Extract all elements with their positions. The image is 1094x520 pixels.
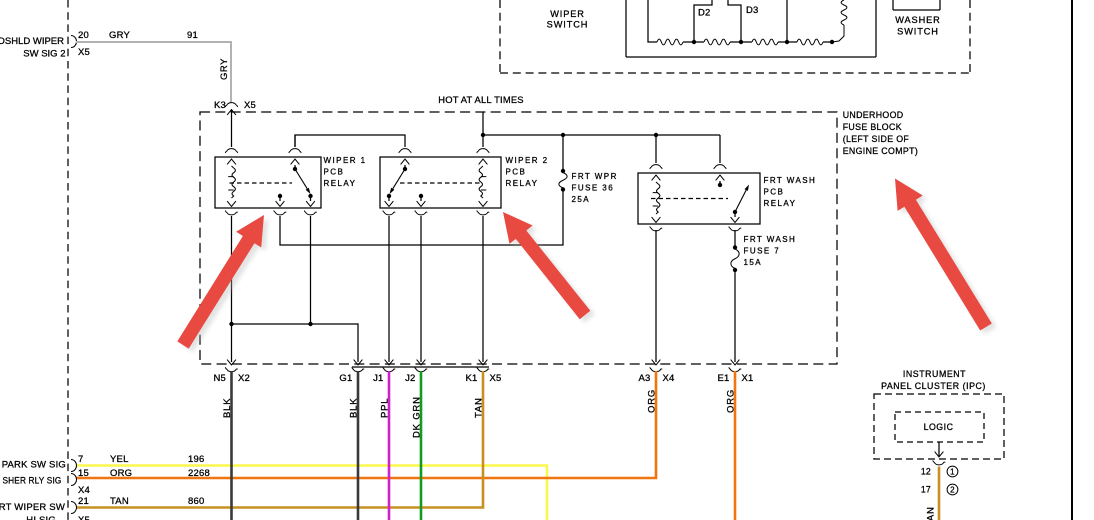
svg-text:7: 7: [78, 454, 83, 465]
op box wiper1 relay: [215, 157, 321, 208]
wash coil bottom arrow: [652, 217, 661, 222]
wiper switch inner box: [625, 0, 627, 57]
wiper2 coil: [479, 166, 486, 198]
LOGIC box (dashed): [895, 412, 984, 442]
svg-text:WIPER 2: WIPER 2: [506, 156, 549, 165]
terminal J1 arrow+cup: [385, 360, 394, 365]
wire wiper2 left to J1: [388, 216, 390, 362]
svg-text:17: 17: [921, 485, 931, 495]
svg-text:INSTRUMENT: INSTRUMENT: [903, 369, 966, 379]
node fuse36 tap: [561, 133, 565, 137]
svg-text:PARK SW SIG: PARK SW SIG: [2, 460, 66, 471]
svg-text:FRT WPR: FRT WPR: [572, 172, 618, 181]
connector washer rly sig pin 15: [71, 474, 77, 486]
wiper2 mid contact wire: [420, 196, 422, 201]
wiper2 mid bottom arrow: [417, 201, 426, 206]
svg-text:SWITCH: SWITCH: [897, 27, 939, 37]
svg-text:X1: X1: [742, 373, 754, 384]
wire wash relay to fuse 7: [734, 230, 736, 246]
svg-text:SW SIG 2: SW SIG 2: [23, 49, 65, 60]
terminal K1 X5 arrow+cup: [479, 360, 488, 365]
wash switch top cup: [714, 165, 726, 169]
wire PPL from J1: [388, 371, 391, 520]
svg-text:HI SIG: HI SIG: [26, 515, 56, 520]
wire wiper1 switch to wiper2 switch: [295, 135, 405, 147]
wire R4 to node: [823, 41, 832, 43]
svg-text:ORG: ORG: [726, 389, 737, 413]
svg-text:J2: J2: [405, 373, 415, 384]
wash link dashed: [651, 198, 728, 200]
svg-text:15A: 15A: [744, 258, 763, 267]
resistor R5 (vertical): [841, 0, 847, 25]
svg-text:SWITCH: SWITCH: [547, 20, 589, 30]
svg-text:G1: G1: [339, 373, 352, 384]
red arrow at wiper2 relay: [508, 216, 595, 323]
resistor R3: [752, 39, 778, 45]
svg-text:860: 860: [188, 496, 204, 507]
resistor R1: [657, 39, 683, 45]
wire to vertical resistor: [832, 25, 844, 42]
fuse 7 bottom dot: [733, 268, 737, 272]
wire TAN 860 frt wiper sw hi sig: [76, 371, 483, 508]
op box wiper2 relay: [380, 157, 501, 208]
steering column switch boundary (dashed): [67, 0, 69, 520]
wiper1 mid bottom cup: [274, 211, 286, 215]
wire wiper1 right bottom to bus: [310, 216, 312, 324]
terminal A3 X4 arrow+cup: [652, 360, 661, 365]
wiper2 link dashed: [400, 182, 481, 184]
IPC output arrow: [935, 452, 944, 457]
svg-text:N5: N5: [213, 373, 226, 384]
wiper1 switch blade: [295, 169, 307, 189]
wiper2 left bottom arrow: [385, 201, 394, 206]
svg-text:2: 2: [950, 486, 955, 495]
svg-text:E1: E1: [717, 373, 729, 384]
connector park sw sig pin 7: [71, 460, 77, 472]
fuse 36 top dot: [561, 169, 565, 173]
svg-text:SHER RLY SIG: SHER RLY SIG: [3, 476, 62, 487]
wiper2 coil bottom arrow: [479, 201, 488, 206]
svg-text:X5: X5: [244, 100, 256, 111]
wiper1 switch arrow: [291, 159, 300, 164]
svg-text:X4: X4: [78, 485, 90, 496]
wiper1 switch top wire: [294, 135, 296, 147]
wiper1 switch pivot dot: [293, 167, 297, 171]
svg-text:FUSE BLOCK: FUSE BLOCK: [843, 122, 902, 132]
wire R2-R3: [730, 41, 752, 43]
wiper2 coil bottom cup: [477, 211, 489, 215]
wash switch pivot dot: [733, 210, 737, 214]
page border line: [1071, 0, 1073, 520]
svg-text:FUSE 36: FUSE 36: [572, 184, 615, 193]
svg-text:J1: J1: [373, 373, 383, 384]
connector bar G1-K1: [352, 366, 489, 368]
svg-text:(LEFT SIDE OF: (LEFT SIDE OF: [843, 134, 910, 144]
node wash relay coil tap: [654, 133, 658, 137]
svg-text:TAN: TAN: [110, 496, 129, 507]
terminal E1 X1 arrow+cup: [731, 360, 740, 365]
wire GRY 91 from sw sig 2 to K3: [76, 42, 231, 103]
svg-text:RELAY: RELAY: [506, 179, 539, 188]
arrow into fuse block at K3: [227, 110, 236, 115]
wire ORG 2268 washer rly sig: [76, 371, 656, 478]
svg-text:PPL: PPL: [380, 398, 391, 418]
wire wiper2 coil to K1: [482, 216, 484, 362]
svg-text:GRY: GRY: [219, 58, 230, 80]
wiper2 switch pivot dot: [403, 167, 407, 171]
underhood fuse block box (dashed): [200, 112, 837, 364]
wiper1 coil top cup: [225, 149, 237, 153]
wire DK GRN from J2: [420, 371, 423, 520]
svg-text:BLK: BLK: [222, 398, 233, 418]
svg-text:196: 196: [188, 454, 204, 465]
svg-text:20: 20: [78, 30, 89, 41]
svg-text:K3: K3: [214, 100, 226, 111]
svg-text:A3: A3: [638, 373, 650, 384]
connector cup K3: [225, 103, 237, 107]
svg-text:BLK: BLK: [349, 398, 360, 418]
resistor R4: [797, 39, 823, 45]
wire K3 to WIPER 1 coil: [231, 110, 233, 148]
wiper2 switch arrow: [401, 159, 410, 164]
svg-text:WASHER: WASHER: [895, 15, 940, 25]
wash switch bottom wire: [734, 212, 736, 217]
wiper2 left bottom wire: [388, 196, 390, 201]
wire TAN from IPC: [938, 467, 941, 520]
node R5 junction: [830, 40, 834, 44]
wash coil bottom cup: [650, 227, 662, 231]
connector frt wiper sw hi sig pin 21: [71, 502, 77, 514]
svg-text:FUSE 7: FUSE 7: [744, 247, 781, 256]
wiper1 switch contact dot: [308, 194, 312, 198]
svg-text:15: 15: [78, 468, 89, 479]
wiper2 coil top cup: [477, 149, 489, 153]
wire BLK from N5: [230, 371, 233, 520]
wiper1 mid contact dot: [278, 194, 282, 198]
wire to wash coil: [655, 135, 657, 163]
wiper2 switch top cup: [399, 149, 411, 153]
svg-text:PCB: PCB: [506, 168, 527, 177]
fuse 7 top dot: [733, 245, 737, 249]
wiper2 switch contact dot: [387, 194, 391, 198]
svg-text:2268: 2268: [188, 468, 210, 479]
wiper1 coil: [228, 166, 235, 198]
svg-text:YEL: YEL: [110, 454, 129, 465]
wire to fuse 36: [562, 135, 564, 169]
svg-text:X5: X5: [78, 515, 90, 520]
svg-text:K1: K1: [465, 373, 477, 384]
wire ORG from E1: [734, 371, 737, 520]
wiper1 right bottom wire: [310, 196, 312, 201]
wiper2 mid bottom cup: [415, 211, 427, 215]
svg-text:X2: X2: [238, 373, 250, 384]
resistor R2: [704, 39, 730, 45]
svg-text:D2: D2: [698, 8, 711, 19]
wire diode D2 branch: [694, 0, 712, 42]
svg-text:X4: X4: [663, 373, 675, 384]
svg-text:RT WIPER SW: RT WIPER SW: [0, 502, 65, 513]
node mid junction: [785, 40, 789, 44]
wire resistor chain left: [648, 0, 657, 42]
red arrow at wiper1 relay: [182, 219, 269, 353]
node D2 junction: [692, 40, 696, 44]
node wiper1 NC contact junction: [308, 322, 312, 326]
svg-text:21: 21: [78, 496, 89, 507]
wiper1 right bottom arrow: [306, 201, 315, 206]
wire YEL 196 park sw sig: [76, 466, 547, 520]
svg-text:ORG: ORG: [110, 468, 132, 479]
IPC output wire: [938, 442, 940, 456]
wiper2 mid contact dot: [419, 194, 423, 198]
svg-text:DSHLD WIPER: DSHLD WIPER: [0, 36, 64, 47]
wire R1-R2: [683, 41, 704, 43]
wash coil top arrow: [652, 175, 661, 180]
wiper1 right bottom cup: [304, 211, 316, 215]
svg-text:HOT AT ALL TIMES: HOT AT ALL TIMES: [438, 94, 524, 105]
svg-text:RELAY: RELAY: [764, 199, 797, 208]
svg-text:RELAY: RELAY: [324, 179, 357, 188]
wiper1 coil bottom arrow: [227, 201, 236, 206]
wiper1 switch top cup: [289, 149, 301, 153]
connector at DSHLD WIPER SW SIG 2 (pin 20 X5): [71, 36, 77, 48]
wash switch bottom cup: [729, 227, 741, 231]
svg-text:PCB: PCB: [324, 168, 345, 177]
svg-text:ENGINE COMPT): ENGINE COMPT): [843, 146, 918, 156]
svg-text:FRT WASH: FRT WASH: [744, 235, 797, 244]
wiper2 left bottom cup: [383, 211, 395, 215]
svg-text:D3: D3: [746, 5, 759, 16]
wire fuse7 to E1: [734, 272, 736, 363]
op box wash relay: [638, 173, 760, 224]
red arrow at underhood fuse block: [900, 182, 997, 334]
node wiper1 coil / ground bus: [229, 322, 233, 326]
svg-text:LOGIC: LOGIC: [924, 422, 954, 432]
svg-text:DK GRN: DK GRN: [412, 396, 423, 438]
wiper1 link dashed: [230, 182, 293, 184]
svg-text:PANEL CLUSTER (IPC): PANEL CLUSTER (IPC): [881, 381, 986, 391]
wash switch bottom arrow: [731, 217, 740, 222]
svg-text:GRY: GRY: [109, 30, 130, 41]
wire BLK from G1: [357, 371, 360, 520]
wire fuse36 to wiper1 mid contact: [280, 191, 563, 245]
wire wiper2 mid to J2: [420, 216, 422, 362]
svg-text:X5: X5: [78, 47, 90, 58]
wiper1 mid contact wire: [279, 196, 281, 201]
terminal J2 arrow+cup: [417, 360, 426, 365]
wiper1 mid bottom arrow: [276, 201, 285, 206]
terminal G1 arrow+cup: [354, 360, 363, 365]
wash switch arrow: [716, 175, 725, 180]
node B+ junction at wiper2 coil: [481, 133, 485, 137]
node D3 junction: [739, 40, 743, 44]
wiper1 coil bottom cup: [225, 211, 237, 215]
svg-text:PCB: PCB: [764, 188, 785, 197]
callout 1: [947, 466, 958, 477]
svg-text:UNDERHOOD: UNDERHOOD: [843, 110, 904, 120]
IPC box (dashed): [874, 394, 1004, 459]
hot feed wire into box: [482, 112, 484, 147]
svg-text:12: 12: [921, 467, 931, 477]
svg-text:25A: 25A: [572, 195, 591, 204]
svg-text:ORG: ORG: [647, 389, 658, 413]
B+ bus wire: [483, 134, 720, 136]
wire wash coil to A3: [655, 230, 657, 362]
wire mid branch up: [786, 0, 788, 42]
svg-text:1: 1: [950, 468, 955, 477]
svg-text:TAN: TAN: [926, 506, 937, 520]
wiper2 switch blade: [393, 169, 405, 189]
terminal N5 X2 arrow+cup: [227, 360, 236, 365]
callout 2: [947, 484, 958, 495]
IPC connector cup: [933, 461, 945, 465]
wire R3-R4: [778, 41, 797, 43]
svg-text:X5: X5: [490, 373, 502, 384]
wire B+ to wash switch: [719, 135, 721, 163]
wash switch blade: [735, 190, 746, 212]
wash switch contact dot: [718, 183, 722, 187]
svg-text:TAN: TAN: [474, 397, 485, 418]
ground bus wire to G1: [232, 324, 359, 362]
svg-text:WIPER: WIPER: [550, 9, 585, 19]
wiper1 coil top arrow: [227, 159, 236, 164]
svg-text:WIPER 1: WIPER 1: [324, 156, 367, 165]
fuse 36 element: [559, 173, 567, 189]
washer switch box: [892, 0, 894, 10]
wash coil: [653, 182, 660, 214]
fuse 36 bottom dot: [561, 187, 565, 191]
svg-text:91: 91: [187, 30, 198, 41]
wiper2 coil top arrow: [479, 159, 488, 164]
svg-text:FRT WASH: FRT WASH: [764, 176, 817, 185]
wire wiper1 coil to N5: [231, 216, 233, 362]
wash coil top cup: [650, 165, 662, 169]
wiper switch box (dashed): [499, 0, 501, 73]
wire diode D3 branch: [728, 0, 741, 42]
fuse 7 element: [731, 249, 739, 269]
